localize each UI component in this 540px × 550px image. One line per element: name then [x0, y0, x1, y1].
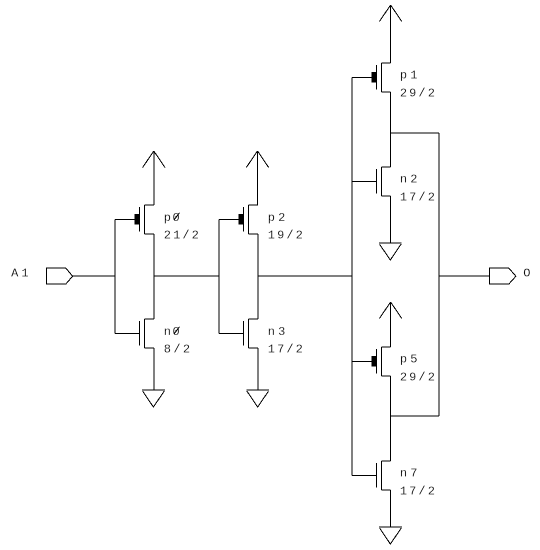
wire inverter2 output to output-stage gate rail	[258, 275, 352, 277]
node output rail	[438, 133, 440, 416]
ground n7	[379, 527, 402, 544]
label n0	[164, 325, 182, 339]
power VDD arrow top	[379, 5, 401, 63]
label n7	[400, 467, 418, 481]
label n2	[400, 173, 418, 187]
wire upper drain node to output rail	[391, 132, 439, 134]
wire n7 source to ground	[390, 490, 392, 527]
label p2	[268, 211, 286, 225]
wire p2 drain to n3 drain	[257, 234, 259, 319]
transistor p2 (PMOS)	[219, 205, 258, 234]
label 29/2 (p5)	[400, 371, 435, 385]
label p1	[400, 69, 418, 83]
label A1	[11, 267, 29, 281]
node inverter2 gate rail	[218, 219, 220, 333]
label p0	[164, 211, 182, 225]
wire A1 to inverter1 gate rail	[73, 275, 116, 277]
label 8/2	[164, 343, 190, 357]
label 17/2 (n7)	[400, 485, 435, 499]
wire output rail to port O	[439, 275, 490, 277]
ground inverter2	[246, 390, 269, 407]
transistor n2 (NMOS)	[352, 167, 391, 196]
transistor n3 (NMOS)	[219, 319, 258, 348]
label p5	[400, 353, 418, 367]
input port A1	[46, 268, 72, 284]
ground inverter1	[142, 390, 165, 407]
svg-text:8/2: 8/2	[164, 343, 190, 357]
wire inverter1 output to inverter2 gate rail	[154, 275, 219, 277]
transistor p5 (PMOS)	[352, 347, 391, 376]
power VDD arrow inverter2	[246, 151, 268, 205]
wire n2 source to ground	[390, 196, 392, 243]
label n3	[268, 325, 286, 339]
output port O	[489, 268, 516, 284]
transistor p1 (PMOS)	[352, 63, 391, 92]
wire p5 drain to n7 drain	[390, 376, 392, 461]
label 17/2 (n3)	[268, 343, 303, 357]
transistor n7 (NMOS)	[352, 461, 391, 490]
label O	[523, 266, 530, 280]
label 29/2 (p1)	[400, 87, 435, 101]
node output-stage gate rail	[351, 77, 353, 475]
power VDD arrow mid (p5 source)	[379, 302, 401, 347]
wire p0 drain to n0 drain	[153, 234, 155, 319]
transistor n0 (NMOS)	[115, 319, 154, 348]
wire p1 drain to n2 drain	[390, 92, 392, 167]
wire lower drain node to output rail	[391, 415, 439, 417]
label 19/2	[268, 229, 303, 243]
wire n0 source to ground	[153, 348, 155, 390]
node inverter1 gate rail	[114, 219, 116, 333]
transistor p0 (PMOS)	[115, 205, 154, 234]
label 17/2 (n2)	[400, 191, 435, 205]
power VDD arrow inverter1	[143, 151, 165, 205]
wire n3 source to ground	[257, 348, 259, 390]
label 21/2	[164, 229, 199, 243]
ground n2	[379, 243, 402, 260]
svg-text:O: O	[523, 266, 530, 280]
